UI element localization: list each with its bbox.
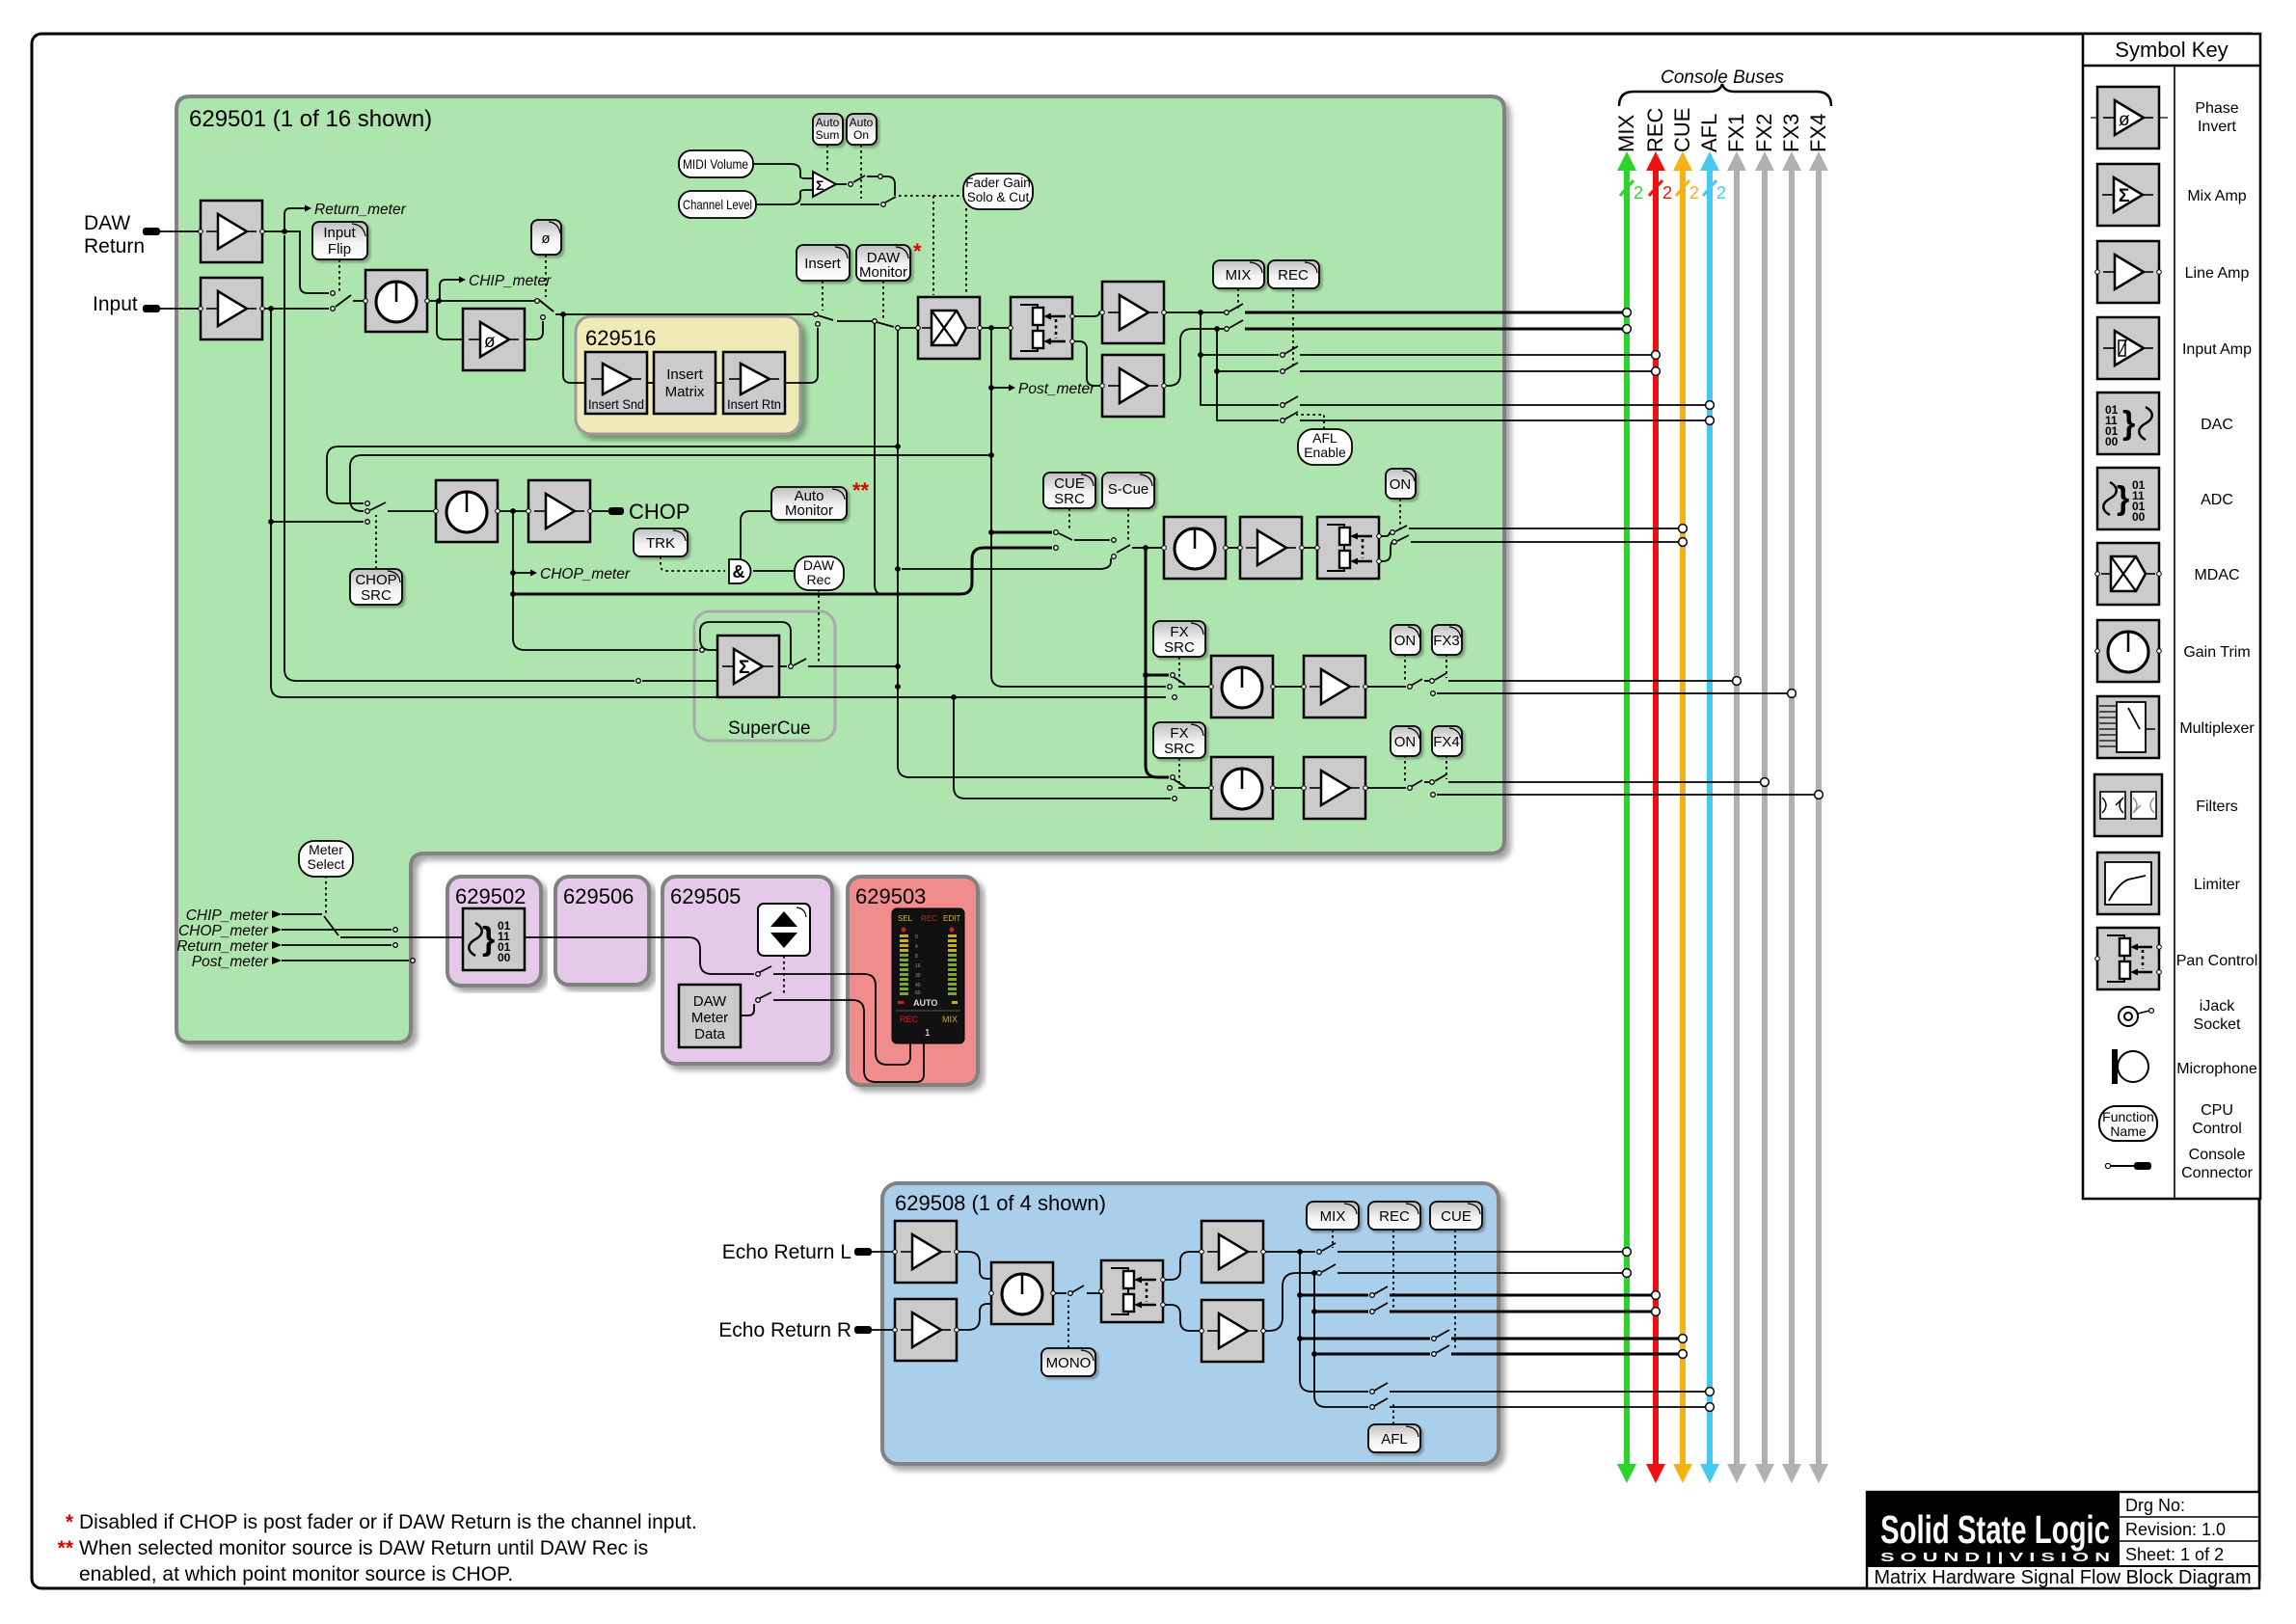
svg-text:MDAC: MDAC <box>2194 567 2239 583</box>
wire dotted S-Cue <box>1127 508 1129 542</box>
wire to gain trim <box>353 300 365 302</box>
wire dotted fader gain left <box>899 195 963 197</box>
wire row1 MIX L <box>1263 1251 1315 1253</box>
wire CUE R chain <box>1313 1312 1315 1354</box>
wire insert snd to matrix <box>647 382 654 384</box>
wire CUE amp pan <box>1302 547 1317 549</box>
svg-text:Solid State Logic: Solid State Logic <box>1880 1507 2110 1552</box>
svg-text:Insert: Insert <box>804 256 841 272</box>
key: CPU control bubble <box>2099 1106 2157 1141</box>
bus FX3 <box>1779 114 1803 1483</box>
wire SuperCue out <box>779 665 787 667</box>
svg-text:Return: Return <box>84 235 145 257</box>
wire phase amp out <box>525 321 543 339</box>
node midi switch contacts <box>849 182 853 187</box>
svg-text:2: 2 <box>1634 183 1643 203</box>
cpu CUE508 <box>1430 1202 1482 1230</box>
wire FX-A alt dest <box>1437 692 1788 694</box>
svg-text:629503: 629503 <box>855 884 926 908</box>
wire channel level feed <box>756 190 813 204</box>
wire row2 MIX R <box>1164 329 1224 386</box>
cpu phase <box>531 220 561 255</box>
pan control main <box>1009 297 1075 359</box>
svg-text:Revision: 1.0: Revision: 1.0 <box>2125 1520 2226 1539</box>
wire DAW Return input <box>160 230 201 232</box>
cpu Auto On <box>847 114 877 145</box>
key: input amp <box>2097 317 2159 379</box>
svg-text:629508 (1 of 4 shown): 629508 (1 of 4 shown) <box>895 1191 1106 1215</box>
svg-text:**: ** <box>58 1537 74 1559</box>
bubble DAW Rec <box>795 556 844 590</box>
node FX-A contacts <box>1171 673 1175 678</box>
wire sigma out <box>836 183 847 185</box>
wire monitor bus vertical <box>898 331 1166 777</box>
wire CHOP sel lever <box>370 502 386 510</box>
svg-text:MIX: MIX <box>1226 267 1252 284</box>
svg-text:DAW: DAW <box>693 993 727 1010</box>
wire post meter arrow <box>991 387 1009 389</box>
wire FX selected vertical <box>1146 548 1169 777</box>
wire dotted FX3 sel <box>1445 654 1447 678</box>
wire Return_meter tap <box>284 208 305 231</box>
wire dotted updown icon <box>783 956 785 996</box>
svg-text:MIX: MIX <box>1614 115 1638 152</box>
wire echo R in <box>872 1329 895 1331</box>
wire mono lever <box>1072 1286 1084 1292</box>
wire dotted CUE SRC <box>1068 508 1070 529</box>
wire REC R chain <box>1217 329 1279 371</box>
wire CUE src A <box>991 531 1052 534</box>
svg-text:Gain Trim: Gain Trim <box>2183 644 2250 661</box>
cpu FX SRC A <box>1153 621 1205 657</box>
svg-text:Mix Amp: Mix Amp <box>2187 188 2246 204</box>
svg-text:SRC: SRC <box>1164 639 1195 656</box>
svg-text:Line Amp: Line Amp <box>2185 265 2250 282</box>
wire CUE pan out L <box>1379 535 1386 537</box>
wire dotted meter select <box>325 876 327 916</box>
wire S-Cue alt feed <box>902 558 1111 569</box>
wire loop A to CHOP sel <box>327 447 898 503</box>
wire Return feed vertical <box>284 235 635 681</box>
cpu ON A <box>1391 625 1420 655</box>
wire auto on lever <box>885 197 896 203</box>
IO labels <box>84 212 851 1341</box>
wire dotted DAW rec <box>818 589 820 663</box>
svg-text:Matrix Hardware Signal Flow Bl: Matrix Hardware Signal Flow Block Diagra… <box>1874 1567 2251 1588</box>
key: console connector <box>2105 1162 2151 1170</box>
key: pan control <box>2095 928 2162 989</box>
wire dotted phase <box>545 255 547 297</box>
bus FX4 <box>1806 114 1830 1483</box>
wire CHOP meter arrow <box>513 572 530 574</box>
meter display 629503 <box>892 908 964 1043</box>
svg-text:Drg No:: Drg No: <box>2125 1496 2185 1515</box>
svg-text:CUE: CUE <box>1670 108 1694 152</box>
cpu FX3 <box>1432 625 1462 655</box>
wire dotted REC508 <box>1392 1230 1394 1308</box>
wire insert switch lever <box>818 315 833 320</box>
wire meter select lever <box>324 916 338 935</box>
wire S-Cue lever <box>1117 545 1130 553</box>
bus AFL <box>1697 114 1726 1483</box>
wire meter line1 to display <box>773 974 910 1065</box>
line amp 508 lower <box>1200 1300 1266 1362</box>
wire into MDAC <box>898 327 918 329</box>
cpu Auto Monitor <box>771 487 847 520</box>
svg-text:AFL: AFL <box>1312 430 1337 446</box>
svg-text:629502: 629502 <box>455 884 526 908</box>
pan control CUE <box>1315 517 1382 579</box>
node meter sel contacts <box>393 928 398 933</box>
pan control 508 <box>1099 1260 1166 1322</box>
cpu ON B <box>1391 726 1420 756</box>
svg-text:Flip: Flip <box>328 241 351 257</box>
svg-text:Fader Gain: Fader Gain <box>965 176 1031 190</box>
svg-text:Return_meter: Return_meter <box>176 938 269 955</box>
wire post chop feed <box>513 548 1052 594</box>
wire pan to lower amp <box>1072 341 1102 386</box>
svg-text:Meter: Meter <box>309 842 343 857</box>
wire matrix to insert rtn <box>716 382 723 384</box>
svg-text:Limiter: Limiter <box>2194 877 2241 893</box>
node insert switch contacts <box>814 312 819 317</box>
svg-text:SRC: SRC <box>1054 491 1085 507</box>
wire row2 MIX R <box>1263 1273 1315 1331</box>
svg-text:FX: FX <box>1170 624 1188 640</box>
junction dots <box>268 229 1220 700</box>
bubble Fader Gain Solo & Cut <box>963 174 1033 209</box>
wire CHOP meter vertical <box>512 511 514 594</box>
amp DAW return <box>199 201 265 262</box>
svg-text:Sum: Sum <box>816 128 840 142</box>
key: filters <box>2094 774 2162 836</box>
svg-text:EDIT: EDIT <box>943 914 960 923</box>
629505 purple <box>662 877 832 1064</box>
svg-text:REC: REC <box>921 914 937 923</box>
svg-text:60: 60 <box>915 990 921 996</box>
svg-text:Function: Function <box>2102 1109 2154 1124</box>
cpu Auto Sum <box>813 114 843 145</box>
svg-text:enabled, at which point monito: enabled, at which point monitor source i… <box>79 1563 513 1585</box>
svg-text:TRK: TRK <box>646 535 675 552</box>
wire row1 MIX L <box>1164 311 1224 313</box>
629508 blue <box>882 1183 1499 1464</box>
cpu MIX508 <box>1307 1202 1359 1230</box>
svg-text:Socket: Socket <box>2194 1016 2241 1033</box>
wire meter Return <box>282 944 392 946</box>
key: gain trim <box>2095 620 2162 682</box>
arrowheads for meter taps <box>272 205 1015 965</box>
wire dotted auto sum <box>826 145 828 174</box>
bubble MIDI Volume <box>679 150 753 177</box>
svg-text:FX4: FX4 <box>1806 114 1830 152</box>
wire AFL L chain <box>1201 355 1279 405</box>
channel block 629501 (L-shape green) <box>176 96 1504 1042</box>
node CUE out switches <box>1391 530 1395 535</box>
connector Echo L <box>854 1248 872 1256</box>
svg-text:DAW: DAW <box>84 212 130 234</box>
svg-text:Data: Data <box>694 1026 725 1042</box>
svg-text:Console: Console <box>2189 1147 2246 1163</box>
key: limiter <box>2097 853 2159 914</box>
svg-text:Auto: Auto <box>850 116 874 129</box>
svg-text:CHOP_meter: CHOP_meter <box>178 923 269 939</box>
svg-text:Insert Rtn: Insert Rtn <box>727 396 781 412</box>
wire AFL R chain <box>1217 371 1279 420</box>
svg-text:ø: ø <box>541 230 550 247</box>
svg-text:Auto: Auto <box>816 116 840 129</box>
net name labels <box>176 202 1095 970</box>
svg-text:Invert: Invert <box>2198 119 2237 135</box>
wire dotted ON A <box>1404 654 1406 683</box>
wire input switch lever <box>336 295 351 307</box>
key: mix amp <box>2097 164 2159 226</box>
svg-text:2: 2 <box>1716 183 1726 203</box>
amp echo R <box>893 1299 959 1361</box>
wire into CUE gain trim <box>1132 547 1164 549</box>
key: ADC <box>2097 468 2159 529</box>
svg-text:Monitor: Monitor <box>785 502 833 519</box>
bus CUE <box>1670 108 1699 1483</box>
svg-text:Input Amp: Input Amp <box>2182 341 2252 358</box>
wire meter common <box>340 936 463 938</box>
wire meter line2 to display <box>773 1000 924 1082</box>
svg-text:Matrix: Matrix <box>665 384 705 400</box>
cpu Insert <box>797 245 850 281</box>
wire insert return riser <box>785 328 818 383</box>
svg-text:Channel Level: Channel Level <box>683 197 752 212</box>
svg-text:DAW: DAW <box>803 557 835 573</box>
amp input <box>199 278 265 339</box>
wire pan to upper amp <box>1163 1252 1202 1280</box>
629503 red <box>848 877 978 1085</box>
svg-text:CPU: CPU <box>2201 1102 2233 1119</box>
svg-text:*: * <box>913 239 922 263</box>
wire echo L in <box>872 1251 895 1253</box>
wire CUE trim amp <box>1226 547 1240 549</box>
mix amp MIDI (sigma triangle) <box>813 172 836 197</box>
bubble Channel Level <box>679 191 756 218</box>
wire meter switch1 lever <box>760 966 771 972</box>
wire pan to lower amp <box>1163 1305 1202 1331</box>
bus MIX <box>1614 115 1643 1483</box>
wire REC L chain <box>1201 312 1279 355</box>
wire CUE pan out R <box>1379 542 1392 561</box>
svg-text:FX1: FX1 <box>1724 114 1748 152</box>
svg-text:FX4: FX4 <box>1433 734 1460 750</box>
wire dotted CUE508 <box>1454 1230 1456 1350</box>
svg-text:SEL: SEL <box>898 914 913 923</box>
bubble AFL Enable <box>1298 429 1352 465</box>
svg-text:Disabled if CHOP is post fader: Disabled if CHOP is post fader or if DAW… <box>79 1511 697 1533</box>
arrow chop label <box>272 926 282 934</box>
wire dotted fader mdac 2 <box>965 208 967 295</box>
line amp upper <box>1100 282 1167 343</box>
wire dotted auto on <box>860 145 862 199</box>
wire CHOP amp out <box>590 510 608 512</box>
svg-text:FX: FX <box>1170 725 1188 742</box>
node CUE sel contacts <box>1054 530 1059 535</box>
svg-text:2: 2 <box>1662 183 1672 203</box>
gain trim main <box>364 270 430 332</box>
bubble Meter Select <box>299 841 353 877</box>
svg-text:Phase: Phase <box>2195 100 2238 117</box>
arrow return label <box>272 941 282 949</box>
svg-text:ADC: ADC <box>2201 492 2233 508</box>
key: microphone <box>2112 1049 2148 1084</box>
svg-text:Post_meter: Post_meter <box>192 954 269 970</box>
cpu AFL508 <box>1368 1424 1420 1452</box>
bus REC <box>1643 107 1672 1483</box>
line amp CUE <box>1238 517 1305 579</box>
wire meter CHOP <box>282 929 392 931</box>
connector Input <box>143 305 160 312</box>
svg-text:S O U N D | | V I S I O N: S O U N D | | V I S I O N <box>1880 1550 2110 1564</box>
updown icon 629505 <box>758 904 810 956</box>
wire MDAC out <box>980 327 1011 329</box>
node CHOP sel contacts <box>365 501 370 506</box>
svg-text:REC: REC <box>1643 107 1667 152</box>
svg-text:*: * <box>66 1511 74 1533</box>
svg-text:REC: REC <box>1379 1208 1410 1225</box>
svg-text:CHOP_meter: CHOP_meter <box>540 566 631 582</box>
svg-text:629505: 629505 <box>670 884 741 908</box>
node AFL row switches <box>1281 403 1285 408</box>
svg-text:AFL: AFL <box>1697 114 1721 152</box>
wire CUE L chain <box>1299 1295 1301 1339</box>
bus FX1 <box>1724 114 1748 1483</box>
dotted CPU control lines <box>326 145 1446 996</box>
key: multiplexer <box>2097 696 2159 758</box>
wire loop B to CHOP sel <box>350 455 991 511</box>
wire SuperCue input 1 <box>513 594 698 650</box>
wire dotted AFL508 <box>1392 1403 1394 1424</box>
wire DAW monitor switch lever <box>877 322 894 327</box>
amp insert send <box>585 352 647 414</box>
wire dotted DAW monitor <box>882 281 884 318</box>
wire Input amp out <box>262 308 329 310</box>
svg-text:Insert: Insert <box>666 366 703 383</box>
wire FX-B out <box>1365 787 1406 789</box>
DAW Meter Data box <box>679 985 741 1047</box>
svg-text:629506: 629506 <box>563 884 634 908</box>
wire dotted ON cue <box>1399 499 1401 528</box>
svg-text:On: On <box>853 128 869 142</box>
wire post meter vertical <box>991 328 1166 687</box>
wire dotted ON B <box>1404 755 1406 784</box>
svg-text:Name: Name <box>2110 1123 2147 1139</box>
gain trim CUE <box>1162 517 1229 579</box>
ADC 629502 <box>463 908 525 970</box>
svg-text:0: 0 <box>915 934 918 940</box>
svg-text:629501 (1 of 16 shown): 629501 (1 of 16 shown) <box>189 106 432 132</box>
wire auto level <box>867 176 895 196</box>
wire phase switch lever <box>539 300 554 311</box>
svg-text:CHIP_meter: CHIP_meter <box>186 907 269 924</box>
svg-text:AUTO: AUTO <box>913 998 937 1008</box>
wire dotted AFL enable <box>1296 415 1324 429</box>
amp echo L <box>893 1221 959 1283</box>
wire meter switch2 lever <box>760 992 771 998</box>
key: phase invert <box>2097 87 2159 149</box>
wire Input <box>160 308 201 310</box>
key: line amp <box>2095 241 2162 303</box>
wire dotted chop src <box>375 515 377 569</box>
wire REC L chain <box>1299 1252 1301 1295</box>
wire FX-B trim amp <box>1273 787 1304 789</box>
wire echo R to trim <box>957 1304 991 1330</box>
line amp FX-A <box>1302 656 1368 717</box>
mix amp SuperCue <box>717 636 779 697</box>
cpu S-Cue <box>1102 473 1154 508</box>
wire CHOP sel input c <box>271 521 364 523</box>
wire FX-A trim amp <box>1273 686 1304 688</box>
svg-text:Symbol Key: Symbol Key <box>2115 38 2228 62</box>
wire FX-B alt dest <box>1437 794 1815 796</box>
gain trim FX-B <box>1209 757 1276 819</box>
arrow chip_meter <box>459 277 466 284</box>
line amp FX-B <box>1302 757 1368 819</box>
svg-text:Insert Snd: Insert Snd <box>588 396 644 412</box>
svg-text:S-Cue: S-Cue <box>1108 481 1149 498</box>
wire Input feed vertical <box>271 309 1166 697</box>
svg-text:30: 30 <box>915 973 921 979</box>
wire main after insert switch <box>837 320 872 322</box>
svg-text:When selected monitor source i: When selected monitor source is DAW Retu… <box>79 1537 648 1559</box>
svg-text:2: 2 <box>1689 183 1699 203</box>
MDAC main <box>916 297 983 359</box>
input connector stubs <box>143 228 624 515</box>
cpu ON cue <box>1386 469 1416 499</box>
arrow chop_meter <box>530 570 537 577</box>
cpu REC1 <box>1268 260 1319 288</box>
svg-text:REC: REC <box>900 1015 919 1024</box>
wire auto sum lever <box>853 176 865 182</box>
wire TRK drop <box>661 556 725 571</box>
contact circles 508 <box>1068 1250 1437 1410</box>
wire ADC out to 629505 <box>525 937 754 974</box>
wire DAW meter data out <box>741 1004 754 1015</box>
node meter display switches <box>756 972 761 977</box>
svg-text:16: 16 <box>915 963 921 969</box>
svg-text:iJack: iJack <box>2200 998 2235 1015</box>
svg-text:Select: Select <box>308 856 345 872</box>
wire dotted fader mdac 1 <box>932 196 934 295</box>
svg-text:629516: 629516 <box>585 326 656 350</box>
wire AFL L chain <box>1300 1339 1368 1392</box>
wire MIDI volume feed <box>753 164 813 178</box>
arrow post_meter <box>1009 385 1015 392</box>
wire into pan <box>1087 1292 1101 1294</box>
wire gain trim out <box>427 300 534 302</box>
svg-text:1: 1 <box>925 1028 931 1039</box>
wire CUE src lever <box>1059 533 1072 540</box>
wire dotted input flip <box>338 259 340 291</box>
cpu REC508 <box>1368 1202 1420 1230</box>
connector Echo R <box>854 1326 872 1334</box>
wire insert send drop <box>563 314 585 383</box>
wire dotted insert <box>822 281 824 311</box>
node DAW monitor contacts <box>873 319 878 324</box>
cpu MONO <box>1041 1348 1095 1376</box>
svg-text:Connector: Connector <box>2181 1165 2253 1181</box>
svg-text:Input: Input <box>323 225 356 241</box>
arrow post label <box>272 957 282 964</box>
wire SuperCue loop <box>700 622 791 663</box>
wire FX-A into trim <box>1178 686 1211 688</box>
svg-text:Echo Return L: Echo Return L <box>722 1241 851 1263</box>
node input switch contacts <box>331 291 336 296</box>
